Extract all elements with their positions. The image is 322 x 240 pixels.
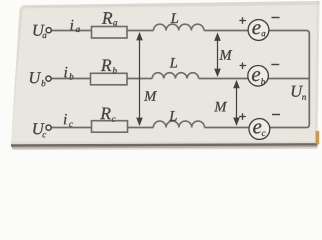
wire Ua to Ra: [52, 30, 92, 32]
label M a-b: [219, 50, 232, 60]
label La: [171, 13, 179, 23]
wire Ub to Rb: [51, 78, 90, 80]
label ec: [253, 123, 265, 136]
plus sign ea: [239, 17, 246, 24]
wire Ra to La: [127, 30, 154, 32]
wire eb to bus: [268, 78, 309, 80]
mutual arrow M a-b: [214, 32, 221, 77]
label Ra: [102, 12, 117, 25]
wire Rc to Lc: [128, 127, 154, 129]
label M a-c: [144, 91, 157, 101]
label Ua: [33, 25, 46, 38]
wire right bus: [308, 34, 310, 125]
node Ua terminal: [46, 28, 51, 33]
minus sign ec: [272, 114, 280, 116]
minus sign ea: [272, 17, 280, 19]
mutual arrow M b-c: [233, 80, 240, 126]
label ib: [64, 67, 73, 80]
wire ec to bus: [270, 125, 310, 128]
plus sign ec: [239, 113, 246, 120]
wire La to ea: [204, 30, 249, 32]
resistor Rb: [91, 73, 128, 85]
source ec: [249, 119, 270, 140]
label Uc: [33, 123, 46, 137]
source ea: [248, 20, 269, 41]
inductor Lc: [153, 121, 204, 127]
label ic: [64, 114, 73, 127]
label Lb: [170, 58, 178, 68]
minus sign eb: [271, 64, 279, 66]
label Rb: [101, 60, 117, 74]
wire ea to bus: [269, 31, 309, 34]
node Uc terminal: [46, 125, 51, 130]
wire Lb to eb: [199, 78, 249, 80]
wire Rb to Lb: [127, 78, 152, 80]
resistor Rc: [92, 121, 128, 133]
label ia: [71, 20, 80, 32]
mutual arrow M a-c: [136, 32, 143, 126]
label eb: [252, 71, 265, 85]
resistor Ra: [92, 27, 128, 39]
plus sign eb: [240, 63, 247, 70]
source eb: [248, 66, 269, 87]
label Rc: [100, 108, 115, 122]
node Ub terminal: [46, 76, 51, 81]
node Un: [292, 86, 306, 100]
wire Uc to Rc: [51, 127, 91, 129]
inductor Lb: [152, 73, 198, 79]
inductor La: [154, 24, 204, 30]
label Ub: [30, 72, 46, 86]
label Lc: [169, 111, 177, 121]
label M b-c: [214, 102, 227, 112]
label ea: [252, 24, 265, 36]
wire Lc to ec: [205, 127, 250, 129]
